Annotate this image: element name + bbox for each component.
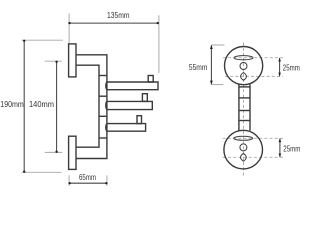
svg-text:55mm: 55mm <box>189 63 208 72</box>
svg-text:190mm: 190mm <box>0 100 24 109</box>
svg-text:140mm: 140mm <box>29 100 54 109</box>
svg-text:65mm: 65mm <box>79 173 96 182</box>
svg-text:25mm: 25mm <box>283 64 300 73</box>
svg-text:25mm: 25mm <box>283 145 300 154</box>
svg-text:135mm: 135mm <box>107 11 130 20</box>
